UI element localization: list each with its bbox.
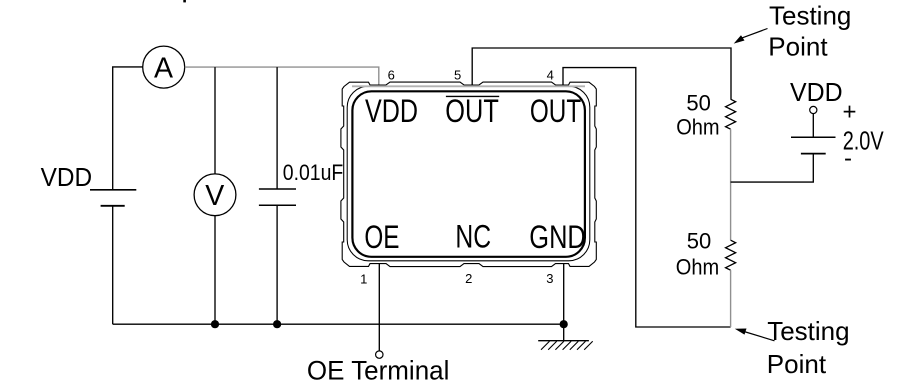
svg-text:3: 3	[546, 271, 553, 286]
capacitor C1	[259, 189, 296, 205]
wire: R2 down to bottom testing point (gray)	[730, 270, 732, 327]
wire: left battery down to bottom rail	[112, 206, 114, 324]
svg-text:2: 2	[465, 271, 472, 286]
svg-text:1: 1	[360, 271, 367, 286]
ground symbol	[538, 341, 593, 350]
svg-text:Ohm: Ohm	[676, 254, 719, 279]
battery B1 VDD left	[90, 190, 136, 206]
wire: top rail to capacitor	[276, 67, 278, 189]
wire: ammeter to pin 6 (gray)	[185, 67, 379, 85]
svg-text:50: 50	[686, 91, 710, 116]
wire: pin 5 up and right to testing point	[472, 48, 731, 99]
svg-text:Point: Point	[768, 31, 828, 61]
svg-text:VDD: VDD	[365, 93, 418, 129]
wire: left battery up to ammeter	[113, 67, 143, 190]
junction dot voltmeter/bottom rail	[211, 320, 219, 328]
svg-text:OUT: OUT	[530, 93, 581, 129]
svg-text:Point: Point	[767, 349, 827, 379]
wire: capacitor to bottom rail	[276, 205, 278, 324]
voltmeter V1	[194, 174, 236, 216]
svg-text:OE Terminal: OE Terminal	[307, 356, 450, 386]
label OUT-bar (pin 5, package)	[445, 93, 499, 129]
svg-text:+: +	[843, 98, 857, 125]
svg-text:GND: GND	[529, 219, 586, 255]
junction dot GND/bottom rail	[560, 320, 568, 328]
OE terminal open circle	[376, 351, 383, 358]
oscillator package U1 outline	[341, 82, 596, 267]
resistor R1 50 Ohm	[726, 99, 736, 129]
svg-text:6: 6	[388, 67, 395, 82]
wire: bottom rail	[113, 323, 564, 325]
svg-text:-: -	[844, 145, 852, 172]
svg-text:5: 5	[454, 67, 461, 82]
wire: voltmeter to bottom rail	[214, 216, 216, 325]
svg-text:OE: OE	[364, 219, 399, 255]
wire: pin 4 up right and down	[563, 68, 731, 327]
svg-text:4: 4	[547, 68, 554, 83]
svg-text:0.01uF: 0.01uF	[283, 160, 344, 185]
svg-text:Testing: Testing	[767, 316, 849, 346]
stray tick top edge	[183, 0, 186, 2]
svg-text:A: A	[154, 52, 173, 84]
svg-text:VDD: VDD	[41, 162, 93, 192]
svg-text:Ohm: Ohm	[676, 115, 719, 140]
svg-text:Testing: Testing	[769, 1, 851, 31]
wire: R1 to R2 (gray)	[730, 129, 732, 240]
arrow to top testing point	[734, 29, 768, 44]
svg-text:OUT: OUT	[445, 93, 499, 129]
wire: top rail to voltmeter	[214, 67, 216, 174]
svg-text:50: 50	[687, 229, 711, 254]
arrow to bottom testing point	[735, 329, 775, 341]
wire: pin 3 to ground	[563, 264, 565, 341]
svg-text:NC: NC	[455, 218, 491, 254]
resistor R2 50 Ohm	[726, 240, 736, 270]
junction dot capacitor/bottom rail	[273, 320, 281, 328]
ammeter A1	[143, 46, 185, 88]
svg-text:VDD: VDD	[790, 77, 843, 107]
wire: pin 1 down to OE terminal	[378, 264, 380, 351]
svg-text:V: V	[205, 180, 224, 212]
battery B2 VDD 2.0V	[731, 106, 836, 182]
